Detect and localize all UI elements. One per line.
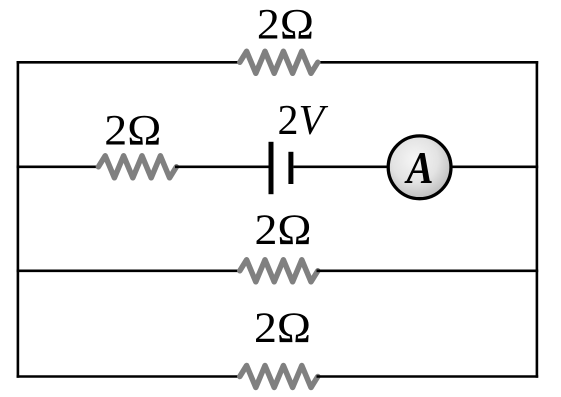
battery V1 short plate — [288, 152, 293, 184]
resistor R2 — [98, 156, 176, 178]
battery V1 long plate — [269, 142, 274, 194]
wire bottom edge left segment — [17, 375, 241, 378]
svg-text:2V: 2V — [278, 98, 329, 144]
ammeter A1 — [388, 136, 451, 199]
svg-text:2Ω: 2Ω — [257, 1, 314, 49]
wire middle branch between R2 and battery — [175, 166, 269, 169]
wire third branch right segment — [317, 269, 539, 272]
svg-text:A: A — [404, 143, 434, 193]
resistor R1 — [240, 51, 318, 73]
wire third branch left segment — [17, 269, 241, 272]
resistor R3 — [240, 260, 318, 282]
resistor R4 — [240, 366, 318, 388]
wire top edge right segment — [317, 61, 539, 64]
wire bottom edge right segment — [317, 375, 539, 378]
wire middle branch right — [451, 166, 538, 169]
wire right edge — [536, 61, 539, 378]
svg-text:2Ω: 2Ω — [255, 206, 312, 254]
wire middle branch between battery and ammeter — [293, 166, 390, 169]
wire middle branch left — [17, 166, 100, 169]
wire top edge left segment — [17, 61, 241, 64]
svg-text:2Ω: 2Ω — [254, 304, 311, 352]
svg-text:2Ω: 2Ω — [104, 106, 161, 154]
wire left edge — [17, 61, 20, 378]
